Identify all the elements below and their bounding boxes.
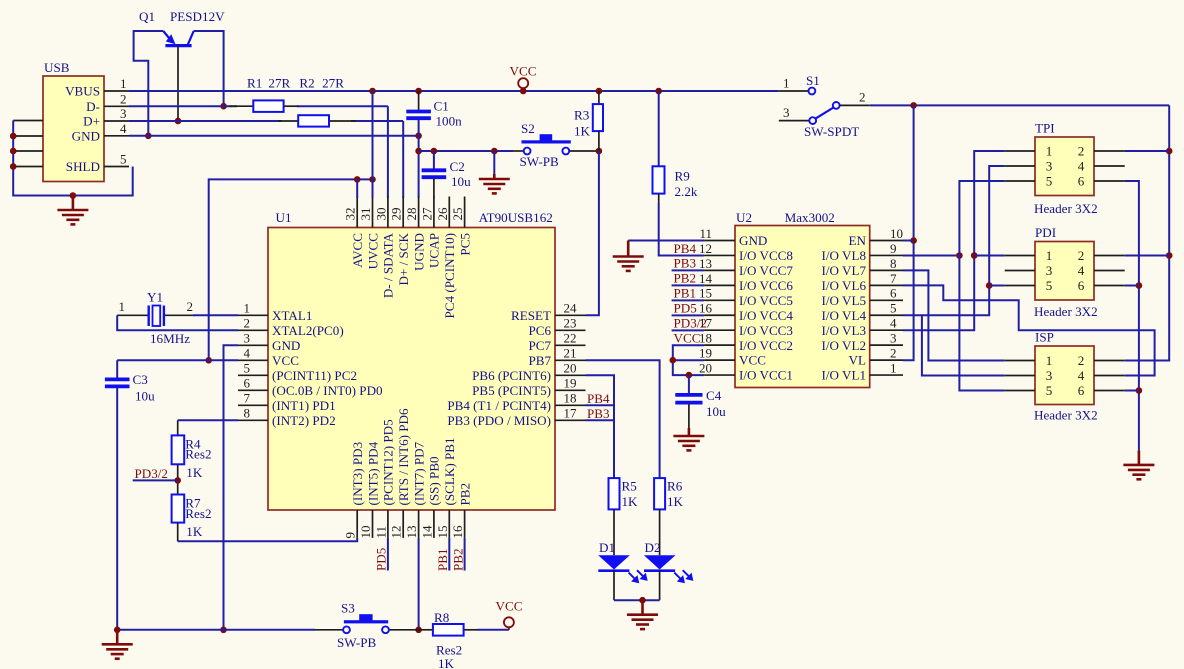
svg-text:1K: 1K [667,494,684,509]
svg-text:29: 29 [389,208,404,221]
svg-text:PD5: PD5 [674,301,698,316]
wire U2 GND pin 11 [628,240,704,242]
wire RESET vertical TPI5 ISP5 [959,181,1004,391]
svg-text:PD3/2: PD3/2 [674,316,707,331]
svg-text:11: 11 [373,526,388,539]
svg-text:1: 1 [1046,144,1053,159]
svg-text:I/O VCC8: I/O VCC8 [739,248,793,263]
svg-text:PB1: PB1 [435,548,450,571]
svg-text:PB4: PB4 [587,391,610,406]
U1 left pin stubs [238,315,268,420]
svg-text:PB4 (T1 / PCINT4): PB4 (T1 / PCINT4) [447,398,551,413]
svg-text:20: 20 [564,361,577,376]
svg-text:4: 4 [1078,368,1085,383]
svg-text:3: 3 [120,106,127,121]
svg-text:24: 24 [564,301,578,316]
svg-text:VCC: VCC [272,353,299,368]
svg-text:1K: 1K [622,494,639,509]
svg-text:(RTS / INT6) PD6: (RTS / INT6) PD6 [396,408,411,506]
svg-text:2: 2 [1078,248,1085,263]
svg-text:ISP: ISP [1035,330,1054,345]
svg-text:GND: GND [72,128,100,143]
wire Q1 right lead to D- row [194,31,224,106]
Q1 symbol body [163,31,193,46]
capacitor C4 10u [688,375,690,394]
U1 right pin stubs [555,315,586,420]
wire R8 to VCC [477,629,509,631]
svg-text:R1: R1 [247,76,262,91]
svg-text:Header 3X2: Header 3X2 [1034,304,1098,319]
net label PB4 pin 18 [586,404,614,406]
svg-text:R6: R6 [667,479,683,494]
svg-text:(SCLK) PB1: (SCLK) PB1 [442,437,457,505]
header ISP 3X2 [1035,346,1094,405]
svg-text:17: 17 [564,406,578,421]
svg-text:12: 12 [699,241,712,256]
svg-text:USB: USB [44,60,70,75]
svg-text:2: 2 [890,346,897,361]
svg-text:Header 3X2: Header 3X2 [1034,201,1098,216]
svg-text:9: 9 [343,532,358,539]
header PDI 3X2 [1035,242,1094,301]
svg-text:14: 14 [699,271,713,286]
svg-text:I/O VL1: I/O VL1 [822,368,867,383]
svg-text:5: 5 [120,152,127,167]
svg-text:Res2: Res2 [185,506,211,521]
svg-text:1: 1 [119,299,126,314]
svg-text:(INT3) PD3: (INT3) PD3 [350,441,365,505]
wire VCC right vertical [1125,105,1170,360]
svg-text:PB5 (PCINT5): PB5 (PCINT5) [472,383,551,398]
svg-text:5: 5 [244,361,251,376]
resistor R5 1K [609,478,620,509]
svg-text:U2: U2 [736,210,752,225]
wire RESET net U2 pin9 [903,255,959,257]
wire R9 to U2 pin 12 PB4 [659,203,704,256]
ground C4 [673,428,704,450]
capacitor C2 10u [433,151,435,169]
svg-text:SW-PB: SW-PB [337,635,377,650]
svg-text:D2: D2 [645,540,661,555]
wire R7 to pin 9 row [177,523,179,542]
svg-text:3: 3 [890,331,897,346]
svg-text:I/O VCC1: I/O VCC1 [739,368,793,383]
svg-text:10: 10 [358,526,373,539]
svg-text:SHLD: SHLD [66,159,100,174]
wire pin8 row to R4 [178,419,238,421]
resistor R9 2.2k [658,91,660,166]
svg-text:20: 20 [699,360,712,375]
ground under S2 [493,151,495,174]
net label PB3 pin 17 [586,419,614,421]
svg-text:PC4 (PCINT10): PC4 (PCINT10) [442,233,457,318]
U2 right pin stubs [870,241,903,376]
svg-text:5: 5 [1046,383,1053,398]
svg-text:4: 4 [244,346,251,361]
ground bottom left [102,630,133,659]
wire VBUS VCC rail [129,90,779,92]
svg-text:23: 23 [564,316,577,331]
svg-text:31: 31 [358,208,373,221]
net label PB2 U2 pin14 [672,284,705,286]
resistor R3 1K [598,91,600,104]
svg-text:19: 19 [699,346,712,361]
svg-text:22: 22 [564,331,577,346]
svg-text:3: 3 [1046,368,1053,383]
switch S1 SW-SPDT [779,90,809,92]
wire crystal pin1 down to XTAL2 row [117,315,238,330]
svg-text:SW-SPDT: SW-SPDT [804,124,859,139]
svg-text:18: 18 [564,391,577,406]
capacitor C3 10u [116,360,118,378]
svg-text:I/O VL7: I/O VL7 [822,263,867,278]
svg-text:8: 8 [890,256,897,271]
wire DATA net TPI1 PDI1 U2pin4 [903,151,1005,330]
switch S2 SW-PB [513,150,524,152]
svg-text:3: 3 [1046,159,1053,174]
svg-text:S3: S3 [341,601,355,616]
svg-text:C2: C2 [450,159,465,174]
net label PB1 U2 pin15 [672,299,705,301]
svg-text:1: 1 [120,76,127,91]
wire UVCC column [372,91,374,198]
svg-text:1: 1 [890,360,897,375]
USB right pin stubs [104,91,129,167]
svg-text:10u: 10u [451,174,471,189]
svg-text:Res2: Res2 [185,447,211,462]
svg-text:26: 26 [435,207,450,221]
svg-text:R9: R9 [675,169,691,184]
svg-text:15: 15 [435,526,450,539]
svg-text:PD3/2: PD3/2 [135,466,168,481]
svg-text:VCC: VCC [739,353,766,368]
svg-text:6: 6 [1078,383,1085,398]
wire PDI pin2 to VCC [1125,255,1170,257]
svg-text:27R: 27R [322,76,344,91]
svg-text:VBUS: VBUS [65,84,100,99]
svg-text:I/O VL5: I/O VL5 [822,293,867,308]
svg-text:25: 25 [450,208,465,221]
Q1 center lead to D+ row [177,46,179,121]
svg-text:VCC: VCC [674,331,701,346]
wire PB6 to R5 [586,375,615,478]
net label PB1 pin 15 [448,538,450,571]
svg-text:1: 1 [1046,248,1053,263]
svg-text:18: 18 [699,331,712,346]
svg-text:32: 32 [343,208,358,221]
LED D2 arrows [674,570,692,582]
svg-text:2: 2 [244,316,251,331]
net label PB2 pin 16 [464,538,466,571]
svg-text:16MHz: 16MHz [150,331,190,346]
svg-text:(PCINT12) PD5: (PCINT12) PD5 [381,419,396,506]
svg-text:PB7: PB7 [528,353,551,368]
svg-text:C1: C1 [434,99,449,114]
wire U2 pin7 to ISP4 [903,285,1155,375]
svg-text:(PCINT11) PC2: (PCINT11) PC2 [272,368,357,383]
wire U1 GND to rail [224,345,239,630]
svg-text:21: 21 [564,346,577,361]
wire EN VL net [903,105,914,360]
svg-text:I/O VCC7: I/O VCC7 [739,263,793,278]
svg-text:16: 16 [699,301,713,316]
header TPI 3X2 [1035,137,1094,196]
ground under LEDs [627,600,658,629]
svg-text:PC5: PC5 [457,233,472,256]
svg-text:1K: 1K [186,465,203,480]
wire PB7 to R6 [586,360,660,478]
svg-text:Q1: Q1 [139,9,155,24]
wire ground rail bottom [117,629,315,631]
resistor R6 1K [654,478,665,509]
svg-text:I/O VCC3: I/O VCC3 [739,323,793,338]
svg-text:4: 4 [1078,159,1085,174]
svg-text:5: 5 [1046,278,1053,293]
svg-text:I/O VCC6: I/O VCC6 [739,278,793,293]
switch S3 SW-PB [315,629,343,631]
svg-text:R5: R5 [622,479,638,494]
resistor R1 27R [229,105,253,107]
svg-text:(INT1) PD1: (INT1) PD1 [272,398,336,413]
resistor R8 Res2 1K [419,629,433,631]
svg-text:I/O VL4: I/O VL4 [822,308,867,323]
ground headers [1123,450,1154,479]
svg-text:PB2: PB2 [674,271,697,286]
net label PD3/2 [133,479,178,481]
svg-text:8: 8 [244,406,251,421]
svg-text:3: 3 [244,331,251,346]
svg-text:(INT7) PD7: (INT7) PD7 [411,441,426,505]
svg-text:19: 19 [564,376,577,391]
svg-text:6: 6 [1078,278,1085,293]
svg-text:C4: C4 [706,388,722,403]
svg-text:GND: GND [272,338,300,353]
resistor R7 Res2 1K [172,495,185,523]
svg-text:3: 3 [1046,263,1053,278]
wire D- row [129,105,237,107]
svg-text:2: 2 [859,90,866,105]
svg-text:Y1: Y1 [147,290,163,305]
svg-text:5: 5 [1046,174,1053,189]
svg-text:GND: GND [739,233,767,248]
svg-text:PC6: PC6 [528,323,551,338]
svg-text:XTAL1: XTAL1 [272,308,312,323]
svg-text:VCC: VCC [496,599,523,614]
svg-text:4: 4 [890,316,897,331]
svg-text:PB6 (PCINT6): PB6 (PCINT6) [472,368,551,383]
svg-text:XTAL2(PC0): XTAL2(PC0) [272,323,344,338]
svg-text:VCC: VCC [510,64,537,79]
svg-text:PB2: PB2 [457,483,472,506]
LED D2 [659,509,661,555]
svg-text:TPI: TPI [1035,121,1055,136]
svg-text:100n: 100n [436,113,463,128]
svg-text:13: 13 [699,256,712,271]
svg-text:2: 2 [1078,144,1085,159]
wire Q1 left lead to GND row [134,31,164,136]
svg-text:D- / SDATA: D- / SDATA [381,232,396,298]
wire D- down to pin 30 [387,106,389,198]
svg-text:3: 3 [783,105,790,120]
USB left pin stubs [13,121,43,167]
svg-text:EN: EN [849,233,867,248]
svg-text:(INT2) PD2: (INT2) PD2 [272,413,336,428]
svg-text:D+: D+ [83,114,100,129]
svg-text:PDI: PDI [1035,225,1056,240]
svg-text:PB3: PB3 [587,406,610,421]
net label PD3/2 U2 pin17 [672,329,705,331]
svg-text:6: 6 [1078,174,1085,189]
LED D1 [613,509,615,555]
net label PB3 U2 pin13 [672,269,705,271]
U1 bottom pin stubs [357,510,464,538]
svg-text:PD5: PD5 [374,547,389,571]
svg-text:11: 11 [699,226,712,241]
wire AVCC column [356,179,358,198]
svg-text:30: 30 [373,208,388,221]
wire AVCC UVCC feed [209,179,373,360]
svg-text:C3: C3 [133,372,149,387]
resistor R4 Res2 1K [172,435,185,464]
svg-text:(OC.0B / INT0) PD0: (OC.0B / INT0) PD0 [272,383,383,398]
svg-text:1K: 1K [186,524,203,539]
svg-text:D+ / SCK: D+ / SCK [396,232,411,285]
svg-text:13: 13 [404,526,419,539]
svg-text:R8: R8 [434,610,450,625]
svg-text:(SS) PB0: (SS) PB0 [427,456,442,506]
svg-text:1K: 1K [438,656,455,669]
wire LED cathodes to ground [613,571,615,601]
svg-text:I/O VCC2: I/O VCC2 [739,338,793,353]
IC U2 Max3002 [735,226,870,388]
svg-text:12: 12 [389,526,404,539]
svg-text:I/O VL2: I/O VL2 [822,338,867,353]
U1 top pin stubs [357,197,464,228]
svg-text:UCAP: UCAP [427,233,442,268]
U2 left pin stubs [704,241,735,376]
svg-text:(INT5) PD4: (INT5) PD4 [365,441,380,505]
svg-text:6: 6 [890,286,897,301]
wire VCC row to U1 [117,359,238,361]
svg-text:7: 7 [244,391,251,406]
wire ISP3 branch [922,315,1005,375]
wire pin13 down to S3 R8 junction [418,538,420,630]
wire USB shield bus [13,121,133,196]
svg-text:10u: 10u [135,389,155,404]
svg-text:RESET: RESET [511,308,551,323]
net label PD5 pin 11 [387,538,389,571]
power VCC top [518,78,528,88]
wire D+ down to pin 29 [402,121,404,198]
capacitor C1 100n [418,91,420,110]
svg-text:PB1: PB1 [674,286,697,301]
wire GND net headers [1125,181,1139,450]
svg-text:AT90USB162: AT90USB162 [479,210,553,225]
wire U2 pin8 to ISP1 [903,270,1005,360]
svg-text:VL: VL [849,353,866,368]
svg-text:14: 14 [419,525,434,539]
svg-text:10: 10 [890,226,903,241]
svg-text:9: 9 [890,241,897,256]
wire TPI pin2 to VCC [1125,150,1170,152]
svg-text:1K: 1K [574,124,591,139]
svg-text:AVCC: AVCC [350,233,365,268]
svg-text:UGND: UGND [411,233,426,271]
ground U2 pin 11 [613,241,644,271]
power VCC bottom [504,617,514,627]
resistor R2 27R [278,120,298,122]
wire CLOCK net TPI3 PDI5 U2pin5 [903,166,1005,315]
wire S1 pin2 rail [870,104,1169,106]
svg-text:Header 3X2: Header 3X2 [1034,408,1098,423]
svg-text:I/O VL3: I/O VL3 [822,323,867,338]
svg-text:R2: R2 [299,76,314,91]
svg-text:4: 4 [1078,263,1085,278]
connector USB [43,76,104,182]
svg-text:S1: S1 [806,73,820,88]
svg-text:I/O VL8: I/O VL8 [822,248,867,263]
svg-text:U1: U1 [276,210,292,225]
svg-text:10u: 10u [706,404,726,419]
svg-text:2: 2 [120,92,127,107]
svg-text:1: 1 [244,301,251,316]
svg-text:I/O VL6: I/O VL6 [822,278,867,293]
svg-text:28: 28 [404,208,419,221]
svg-text:16: 16 [450,525,465,539]
svg-text:PB3: PB3 [674,256,697,271]
svg-text:5: 5 [890,301,897,316]
svg-text:S2: S2 [521,121,535,136]
svg-text:D1: D1 [599,540,615,555]
svg-text:PB4: PB4 [674,241,697,256]
svg-text:PB2: PB2 [450,548,465,571]
net label PD5 U2 pin16 [672,314,705,316]
svg-text:I/O VCC4: I/O VCC4 [739,308,793,323]
svg-text:PC7: PC7 [528,338,551,353]
svg-text:UVCC: UVCC [365,233,380,270]
svg-text:1: 1 [783,76,790,91]
IC U1 AT90USB162 [268,228,555,511]
svg-text:PESD12V: PESD12V [170,9,225,24]
svg-text:4: 4 [120,121,127,136]
LED D1 arrows [629,570,647,582]
wire R3 to RESET [586,151,599,315]
wire U2 VCC bracket pins 18 19 20 [673,345,704,375]
svg-text:27: 27 [419,207,434,221]
svg-text:2.2k: 2.2k [675,184,698,199]
svg-text:SW-PB: SW-PB [520,154,560,169]
svg-text:2: 2 [1078,353,1085,368]
svg-text:1: 1 [1046,353,1053,368]
wire XTAL1 row [193,314,238,316]
wire GND row [129,135,419,137]
ground USB [57,196,88,225]
svg-text:7: 7 [890,271,897,286]
svg-text:27R: 27R [268,76,290,91]
wire D+ row [129,120,282,122]
svg-text:PB3 (PDO / MISO): PB3 (PDO / MISO) [447,413,551,428]
svg-text:2: 2 [187,299,194,314]
wire S2 left row [419,150,513,152]
svg-text:I/O VCC5: I/O VCC5 [739,293,793,308]
svg-text:6: 6 [244,376,251,391]
svg-text:D-: D- [86,99,100,114]
svg-text:R3: R3 [574,108,590,123]
svg-text:15: 15 [699,286,712,301]
svg-text:Max3002: Max3002 [785,210,835,225]
wire UGND column to chip pin 28 [418,151,420,198]
